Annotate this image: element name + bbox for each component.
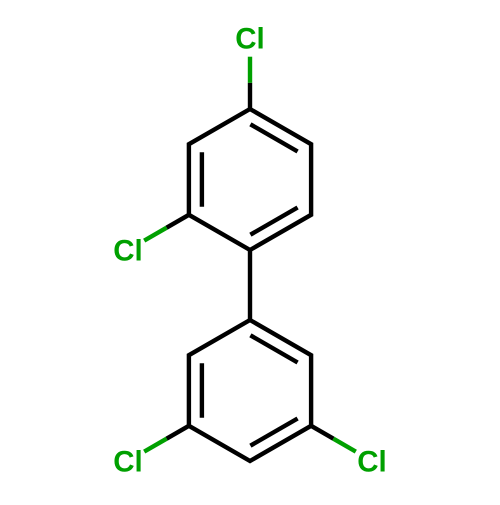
wire bond carbon half, Cl at C3' xyxy=(311,426,333,439)
wire bond chlorine half, Cl at C5' xyxy=(144,439,166,452)
ring A: top benzene ring outline (C1-C2-C3-C4-C5-C6) xyxy=(189,109,311,250)
ring B: bottom benzene ring outline (C1'-C2'-C3'-C4'-C5'-C6') xyxy=(189,320,311,461)
wire double-bond inner line C1'=C2' (ring B) xyxy=(250,335,297,362)
wire biphenyl single bond C1-C1' xyxy=(248,250,252,320)
wire bond carbon half, Cl at C5' xyxy=(167,426,189,439)
wire double-bond inner line C4=C5 (ring A) xyxy=(250,124,297,151)
wire double-bond inner line C5'=C6' (ring B) xyxy=(200,363,204,418)
wire bond chlorine half, Cl at C3' xyxy=(333,439,355,452)
svg-text:Cl: Cl xyxy=(113,235,143,268)
wire bond chlorine half, Cl at C4 xyxy=(248,57,252,83)
wire bond carbon half, Cl at C4 xyxy=(248,83,252,109)
wire double-bond inner line C3'=C4' (ring B) xyxy=(250,419,297,446)
svg-text:Cl: Cl xyxy=(113,446,143,479)
svg-text:Cl: Cl xyxy=(235,23,265,56)
svg-text:Cl: Cl xyxy=(357,446,387,479)
wire bond chlorine half, Cl at C2 xyxy=(144,228,166,241)
wire bond carbon half, Cl at C2 xyxy=(167,215,189,228)
wire double-bond inner line C2=C3 (ring A) xyxy=(200,152,204,207)
wire double-bond inner line C6=C1 (ring A) xyxy=(250,208,297,235)
